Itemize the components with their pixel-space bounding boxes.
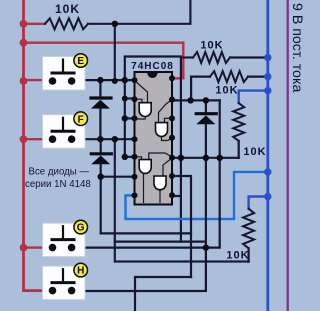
diode D3 1N4148 bbox=[196, 100, 216, 157]
svg-text:10K: 10K bbox=[243, 146, 266, 158]
wire from F line down to bottom D-line bbox=[115, 139, 249, 261]
blue +V bus vertical bbox=[266, 0, 269, 311]
wire from R1 node down to E line bbox=[114, 24, 116, 81]
wire D2 junction to pin6 bbox=[101, 176, 135, 178]
gate U1A bbox=[135, 81, 148, 120]
IC U1 74HC08 body bbox=[135, 72, 173, 205]
svg-text:G: G bbox=[77, 223, 85, 234]
svg-text:F: F bbox=[78, 114, 84, 125]
wire pin13 row y100 bbox=[172, 98, 220, 101]
wire A row: D2 to pin9 riser bbox=[101, 232, 191, 234]
gate U1B bbox=[159, 100, 173, 141]
switch F output line to pin4 bbox=[72, 138, 135, 140]
wire R1 to top edge bbox=[88, 0, 190, 24]
stub to pin2 bbox=[125, 97, 135, 99]
svg-text:10K: 10K bbox=[215, 85, 238, 97]
switch F bbox=[43, 112, 88, 148]
resistor R1 10K bbox=[45, 18, 88, 29]
resistor R3 10K bbox=[191, 71, 268, 100]
wire row y158 pin10 to R4 bbox=[172, 157, 239, 159]
gate U1D bbox=[160, 158, 172, 203]
svg-text:серии 1N 4148: серии 1N 4148 bbox=[25, 179, 91, 190]
red stub to switch G bbox=[24, 246, 54, 248]
svg-text:10K: 10K bbox=[200, 40, 223, 52]
svg-text:E: E bbox=[77, 56, 84, 67]
wire pin8 stub drop bbox=[172, 195, 181, 197]
node: black junction dots bbox=[97, 21, 223, 251]
wire W: around IC top to pin10 bbox=[125, 57, 181, 242]
svg-text:9 В пост. тока: 9 В пост. тока bbox=[289, 3, 305, 92]
red stub to switch E bbox=[24, 79, 54, 81]
resistor R4 10K vertical bbox=[233, 91, 268, 158]
wire pin9 riser bbox=[172, 176, 191, 277]
wire x125 pins 2,3,5 bbox=[125, 80, 135, 157]
svg-text:10K: 10K bbox=[226, 250, 249, 262]
red stub to switch F bbox=[24, 138, 54, 140]
gate U1C bbox=[135, 153, 173, 203]
IC notch bbox=[147, 73, 157, 78]
red +9V bus (left vertical rail) bbox=[24, 0, 54, 291]
svg-text:Все диоды —: Все диоды — bbox=[29, 167, 90, 178]
switch H output line bbox=[72, 158, 206, 291]
svg-text:74HC08: 74HC08 bbox=[131, 61, 174, 72]
stub to pin3 bbox=[125, 117, 135, 119]
switch E output line to pin1 bbox=[72, 79, 135, 81]
wire B row pin8 bbox=[115, 241, 206, 243]
node: blue bus dots bbox=[264, 54, 271, 200]
svg-text:H: H bbox=[77, 266, 84, 277]
resistor R2 10K bbox=[183, 52, 267, 63]
switch G bbox=[43, 220, 88, 256]
red stub to R1 bbox=[24, 23, 46, 25]
switch G output line to riser bbox=[72, 100, 220, 247]
switch H bbox=[43, 263, 88, 299]
wire E-row y277 to bottom edge bbox=[135, 277, 191, 311]
blue wire pin7 route to +V bus bbox=[126, 172, 268, 219]
diode D2 1N4148 bbox=[91, 139, 111, 233]
node: red bus junction dots bbox=[20, 20, 28, 252]
purple battery wire bbox=[287, 0, 289, 311]
diode D1 1N4148 bbox=[91, 80, 111, 139]
red wire bus to IC pin14 VCC bbox=[24, 43, 184, 79]
resistor R5 10K vertical bbox=[243, 197, 268, 262]
IC pin dots bbox=[132, 75, 176, 198]
switch E bbox=[43, 54, 88, 90]
svg-text:10K: 10K bbox=[55, 2, 80, 16]
